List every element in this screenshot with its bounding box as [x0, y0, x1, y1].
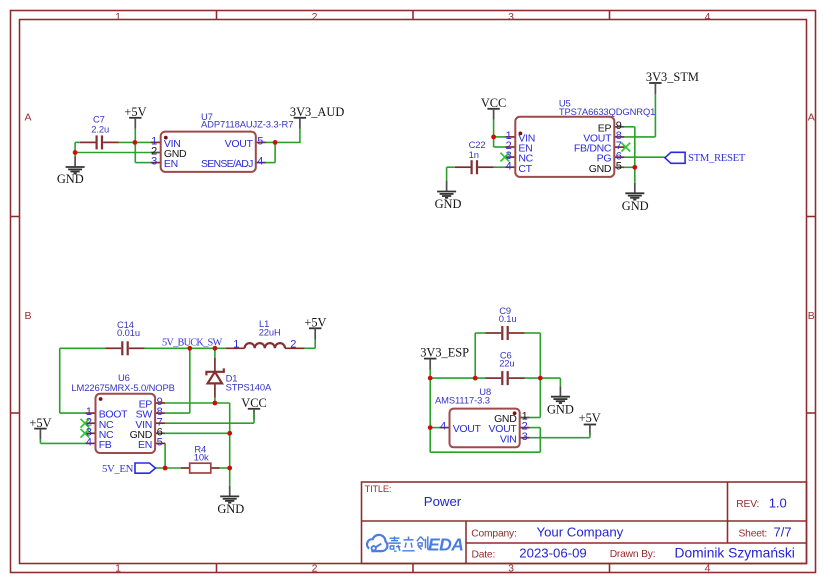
svg-text:STM_RESET: STM_RESET	[688, 152, 746, 164]
svg-text:+5V: +5V	[124, 105, 146, 119]
svg-text:22u: 22u	[499, 358, 514, 369]
svg-text:3: 3	[508, 11, 514, 23]
svg-text:GND: GND	[589, 163, 612, 175]
svg-text:4: 4	[705, 563, 711, 575]
svg-text:SENSE/ADJ: SENSE/ADJ	[201, 158, 253, 170]
svg-text:+5V: +5V	[304, 316, 326, 330]
svg-text:4: 4	[440, 421, 446, 433]
svg-text:Dominik Szymański: Dominik Szymański	[675, 546, 795, 561]
svg-text:EN: EN	[138, 439, 152, 451]
svg-text:3: 3	[522, 431, 528, 443]
svg-text:B: B	[808, 310, 815, 322]
svg-text:Company:: Company:	[471, 529, 516, 540]
svg-text:GND: GND	[622, 199, 649, 213]
svg-text:GND: GND	[435, 197, 462, 211]
svg-text:0.01u: 0.01u	[117, 327, 140, 338]
svg-text:1: 1	[115, 11, 121, 23]
svg-text:TPS7A6633QDGNRQ1: TPS7A6633QDGNRQ1	[559, 106, 655, 117]
svg-text:2: 2	[312, 563, 318, 575]
svg-text:2023-06-09: 2023-06-09	[519, 546, 586, 561]
svg-text:3: 3	[508, 563, 514, 575]
svg-text:3V3_AUD: 3V3_AUD	[290, 105, 344, 119]
svg-text:22uH: 22uH	[259, 326, 281, 337]
svg-text:1: 1	[115, 563, 121, 575]
svg-text:REV:: REV:	[736, 499, 759, 510]
svg-text:5: 5	[157, 437, 163, 449]
svg-text:4: 4	[705, 11, 711, 23]
svg-text:4: 4	[506, 160, 512, 172]
svg-text:GND: GND	[57, 172, 84, 186]
svg-text:FB: FB	[99, 439, 112, 451]
svg-text:EDA: EDA	[428, 534, 463, 554]
svg-text:B: B	[24, 310, 31, 322]
svg-text:5V_BUCK_SW: 5V_BUCK_SW	[162, 338, 222, 349]
svg-text:VOUT: VOUT	[225, 138, 254, 150]
svg-text:Your Company: Your Company	[537, 525, 624, 540]
svg-text:CT: CT	[518, 163, 532, 175]
svg-text:1n: 1n	[469, 149, 479, 160]
svg-text:ADP7118AUJZ-3.3-R7: ADP7118AUJZ-3.3-R7	[201, 118, 293, 129]
svg-text:A: A	[808, 112, 815, 124]
svg-text:AMS1117-3.3: AMS1117-3.3	[435, 394, 490, 405]
svg-text:GND: GND	[217, 502, 244, 516]
svg-text:LM22675MRX-5.0/NOPB: LM22675MRX-5.0/NOPB	[71, 382, 174, 393]
svg-text:+5V: +5V	[579, 411, 601, 425]
svg-text:A: A	[24, 112, 31, 124]
svg-text:2: 2	[290, 338, 296, 350]
svg-text:3V3_ESP: 3V3_ESP	[420, 346, 469, 360]
svg-text:TITLE:: TITLE:	[365, 484, 392, 494]
svg-text:GND: GND	[547, 402, 574, 416]
svg-text:1.0: 1.0	[769, 495, 787, 510]
svg-text:STPS140A: STPS140A	[226, 382, 272, 393]
svg-text:3V3_STM: 3V3_STM	[646, 70, 699, 84]
svg-text:+5V: +5V	[29, 416, 51, 430]
svg-text:4: 4	[86, 437, 92, 449]
svg-text:VIN: VIN	[500, 433, 517, 445]
svg-text:1: 1	[233, 338, 239, 350]
svg-text:7/7: 7/7	[774, 525, 792, 540]
svg-text:Power: Power	[424, 494, 462, 509]
svg-text:10k: 10k	[194, 452, 209, 463]
svg-text:Drawn By:: Drawn By:	[610, 549, 656, 560]
svg-text:Sheet:: Sheet:	[739, 529, 768, 540]
svg-text:3: 3	[151, 156, 157, 168]
svg-text:4: 4	[257, 156, 263, 168]
svg-text:VCC: VCC	[481, 96, 506, 110]
svg-text:5: 5	[257, 136, 263, 148]
svg-text:2.2u: 2.2u	[91, 124, 109, 135]
svg-text:VCC: VCC	[241, 396, 266, 410]
svg-text:5: 5	[616, 160, 622, 172]
svg-text:0.1u: 0.1u	[499, 313, 517, 324]
svg-text:2: 2	[312, 11, 318, 23]
svg-text:EN: EN	[164, 158, 178, 170]
svg-text:VOUT: VOUT	[453, 423, 482, 435]
svg-text:5V_EN: 5V_EN	[102, 463, 134, 475]
svg-text:Date:: Date:	[472, 550, 496, 561]
